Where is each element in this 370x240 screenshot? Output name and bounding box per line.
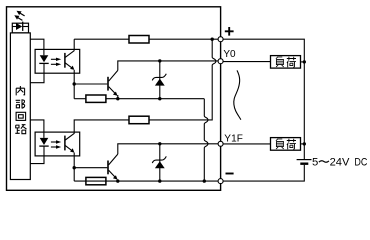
zener diode ZD1 — [152, 61, 166, 99]
terminal Y0 — [218, 59, 223, 64]
omitted channels squiggle — [234, 70, 241, 119]
wire PC1 emitter down — [73, 70, 75, 99]
battery BT1 — [297, 160, 312, 164]
wire ch1 emitter rail — [74, 98, 86, 100]
label 部 — [16, 99, 25, 108]
PC2 LED cathode return wire — [30, 146, 44, 164]
wire load 1 to rail — [301, 61, 305, 63]
junction dot + line / branch B — [211, 38, 214, 41]
PC1 LED cathode return wire — [30, 63, 44, 82]
terminal minus — [218, 179, 223, 184]
load 2 label 荷 — [287, 139, 296, 149]
PC1 LED feed wire from internal circuit — [30, 39, 44, 55]
terminal Y1F — [218, 141, 223, 146]
wire + terminal to right rail — [223, 39, 304, 159]
wire minus rail — [74, 180, 218, 182]
LED emission arrow 2 — [14, 15, 22, 20]
svg-text:5: 5 — [312, 157, 318, 169]
wire Q1 emitter stub — [117, 95, 119, 99]
label 内 — [16, 86, 24, 95]
junction dot load 1 / rail — [303, 60, 306, 63]
wire Q2 base — [74, 167, 107, 169]
junction dot Q2 emitter — [116, 179, 119, 182]
PC2 phototransistor — [65, 133, 75, 152]
junction dot ZD1 top — [158, 59, 161, 62]
wire line A down to minus rail (with hops) — [204, 99, 208, 181]
junction dot line A / minus rail — [203, 179, 206, 182]
svg-text:Y1F: Y1F — [224, 134, 243, 145]
PC1 light arrow 1 — [51, 58, 61, 61]
PC2 LED — [39, 138, 48, 146]
transistor Q2 — [108, 154, 118, 180]
label + — [225, 27, 234, 36]
load 2 box — [271, 138, 301, 151]
junction dot ZD2 top — [158, 142, 161, 145]
indicator LED box — [12, 23, 28, 33]
zener diode ZD2 — [152, 144, 166, 181]
wire branch B from + down to ch2 resistor line (hop over Y0) — [149, 39, 216, 120]
junction dot ZD2 bottom — [158, 179, 161, 182]
wire resistor R1 to + terminal — [149, 38, 218, 40]
wire Q1 base — [74, 83, 107, 85]
PC2 LED feed wire from internal circuit — [30, 120, 44, 138]
wire R3 to PC2 collector — [74, 120, 129, 134]
svg-text:Y0: Y0 — [223, 49, 236, 60]
load 2 label 負 — [276, 139, 284, 149]
unit frame — [7, 7, 221, 191]
load 1 label 負 — [276, 57, 284, 67]
transistor Q1 — [108, 70, 118, 96]
PC1 light arrow 2 — [51, 63, 61, 66]
junction dot Q1 emitter — [116, 97, 119, 100]
junction dot load 2 / rail — [303, 142, 306, 145]
svg-text:24V: 24V — [330, 157, 350, 169]
junction dot PC2 emitter / Q2 base — [73, 166, 76, 169]
wire Q2 collector to Y1F line (hop at line A) — [118, 144, 218, 154]
resistor R2 — [86, 95, 106, 102]
optocoupler PC1 box — [35, 49, 80, 73]
LED emission arrow 1 — [17, 11, 25, 16]
wire R2 to rail — [106, 98, 160, 100]
junction dot PC1 emitter / Q1 base — [73, 82, 76, 85]
wire PC2 emitter down — [73, 153, 75, 182]
label 回 — [16, 112, 26, 120]
svg-text:DC: DC — [354, 157, 367, 169]
wire Y0 to load 1 — [223, 61, 270, 63]
resistor R4 — [86, 177, 106, 184]
resistor R3 — [129, 116, 149, 124]
load 1 label 荷 — [287, 57, 296, 67]
wire ch1 emitter rail to line A — [160, 98, 205, 100]
label 路 — [15, 125, 26, 134]
label minus — [226, 173, 234, 175]
wire PC1 collector to + line — [73, 39, 75, 51]
PC1 phototransistor — [65, 51, 75, 70]
wire Y1F to load 2 — [223, 143, 270, 145]
wire + line (left of terminal) — [74, 38, 129, 40]
wire Q1 collector to Y0 line — [118, 61, 218, 71]
label 5~24V DC — [312, 157, 367, 169]
PC2 light arrow 1 — [51, 140, 61, 143]
terminal + — [218, 37, 223, 42]
optocoupler PC2 box — [35, 132, 80, 156]
load 1 box — [271, 56, 301, 69]
wire battery to minus terminal — [223, 165, 304, 181]
resistor R1 — [129, 36, 149, 44]
PC2 light arrow 2 — [51, 145, 61, 148]
indicator LED D1 — [12, 22, 28, 31]
wire load 2 to rail — [301, 143, 305, 145]
junction dot ZD1 bottom — [158, 97, 161, 100]
PC1 LED — [39, 55, 48, 63]
internal circuit box 内部回路 — [10, 33, 30, 180]
